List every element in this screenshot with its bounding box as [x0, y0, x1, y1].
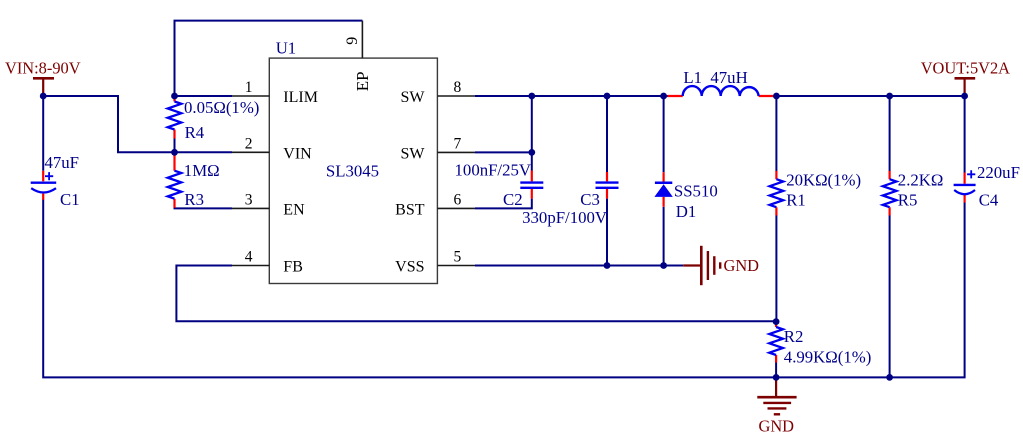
wire to pin 1	[175, 95, 233, 97]
svg-text:1: 1	[245, 79, 253, 96]
wire C3 branch top	[606, 96, 608, 172]
junction node D1/VSS	[660, 262, 667, 269]
capacitor C2	[455, 161, 544, 209]
svg-text:8: 8	[454, 79, 462, 96]
pin 8 SW	[437, 95, 475, 97]
svg-text:3: 3	[245, 191, 253, 208]
junction node R4/R3 VIN pin	[171, 149, 178, 156]
junction node VOUT/C4	[961, 93, 968, 100]
svg-text:47uH: 47uH	[710, 68, 747, 87]
pin 7 SW	[437, 151, 475, 153]
svg-text:2: 2	[245, 135, 253, 152]
junction node C3/VSS	[604, 262, 611, 269]
wire R3 to pin 3	[175, 204, 233, 208]
svg-text:20KΩ(1%): 20KΩ(1%)	[786, 170, 861, 189]
svg-text:330pF/100V: 330pF/100V	[522, 208, 607, 227]
svg-text:R5: R5	[898, 191, 918, 210]
svg-text:FB: FB	[283, 259, 303, 276]
wire FB pin 4 loop to R2 top	[176, 266, 776, 322]
wire SW rail right of L1	[773, 95, 965, 97]
wire C1 bottom / bottom rail / right riser to C4	[43, 200, 964, 378]
svg-text:9: 9	[344, 37, 361, 45]
svg-text:R4: R4	[185, 123, 205, 142]
wire to pin 2	[175, 151, 233, 153]
resistor R2	[769, 322, 871, 367]
pin 2 VIN	[232, 151, 269, 153]
svg-text:SW: SW	[401, 145, 426, 162]
svg-text:C2: C2	[503, 190, 523, 209]
svg-text:VOUT:5V2A: VOUT:5V2A	[921, 59, 1010, 78]
inductor L1	[668, 68, 774, 96]
junction node R5/rail	[886, 374, 893, 381]
wire R5 branch top	[889, 96, 891, 171]
svg-text:C4: C4	[979, 191, 999, 210]
pin 3 EN	[232, 207, 269, 209]
svg-text:VSS: VSS	[395, 259, 424, 276]
junction node L1/R1	[773, 93, 780, 100]
junction node SW/D1	[660, 93, 667, 100]
svg-text:1MΩ: 1MΩ	[184, 161, 220, 180]
ground symbol at VSS rail	[683, 246, 720, 285]
svg-text:GND: GND	[759, 417, 795, 436]
resistor R4	[168, 97, 260, 153]
junction node pin7/C2	[528, 149, 535, 156]
svg-text:100nF/25V: 100nF/25V	[455, 161, 531, 180]
pin 4 FB	[232, 265, 269, 267]
resistor R3	[168, 154, 220, 209]
wire C4 branch top	[964, 96, 966, 173]
wire R2 bottom to rail	[775, 363, 777, 378]
svg-text:4.99KΩ(1%): 4.99KΩ(1%)	[784, 348, 872, 367]
pin 6 BST	[437, 207, 475, 209]
svg-text:L1: L1	[683, 68, 702, 87]
resistor R5	[883, 170, 944, 215]
pin 1 ILIM	[232, 95, 269, 97]
svg-text:SL3045: SL3045	[326, 161, 379, 180]
wire R1 branch top	[775, 96, 777, 171]
svg-text:4: 4	[245, 249, 253, 266]
svg-text:R2: R2	[784, 327, 804, 346]
wire R5 bottom to rail	[889, 216, 891, 378]
wire VIN top to R4/VIN pin	[43, 96, 174, 152]
diode D1 SS510	[654, 172, 717, 221]
wire D1 bottom to VSS rail	[663, 207, 665, 266]
svg-text:SS510: SS510	[674, 181, 718, 200]
op IC U1 SL3045 box	[269, 58, 437, 283]
junction node R2/GND rail	[773, 374, 780, 381]
svg-text:EP: EP	[353, 71, 372, 91]
capacitor C4	[954, 163, 1020, 209]
svg-text:6: 6	[454, 191, 462, 208]
power port VIN bar	[33, 78, 54, 95]
svg-text:2.2KΩ: 2.2KΩ	[898, 170, 944, 189]
svg-text:R1: R1	[786, 191, 806, 210]
junction node VOUT/R5	[886, 93, 893, 100]
svg-text:D1: D1	[676, 202, 697, 221]
svg-text:SW: SW	[401, 89, 426, 106]
wire pin 7 to C2	[475, 151, 532, 153]
svg-text:BST: BST	[395, 201, 425, 218]
svg-text:EN: EN	[283, 201, 305, 218]
wire VSS rail pin 5 to GND	[475, 265, 683, 267]
junction node SW/C2	[528, 93, 535, 100]
junction node VIN	[40, 93, 47, 100]
wire D1 branch top	[663, 96, 665, 172]
svg-text:VIN: VIN	[283, 145, 312, 162]
pin 5 VSS	[437, 265, 475, 267]
svg-text:GND: GND	[724, 256, 760, 275]
svg-text:47uF: 47uF	[45, 153, 80, 172]
wire SW rail left of L1	[475, 95, 668, 97]
pin 9 EP	[361, 21, 363, 59]
svg-text:220uF: 220uF	[977, 163, 1020, 182]
svg-text:C3: C3	[580, 190, 600, 209]
wire R1 bottom to FB node	[775, 216, 777, 322]
wire VIN down to C1	[42, 96, 44, 171]
junction node SW/C3	[604, 93, 611, 100]
junction node R4 top	[171, 93, 178, 100]
svg-text:C1: C1	[60, 190, 80, 209]
svg-text:VIN:8-90V: VIN:8-90V	[5, 59, 81, 78]
svg-text:0.05Ω(1%): 0.05Ω(1%)	[184, 98, 259, 117]
capacitor C3	[522, 172, 618, 227]
wire C2 branch from SW rail	[531, 96, 533, 171]
ground symbol bottom GND	[757, 377, 796, 414]
svg-text:R3: R3	[184, 190, 204, 209]
resistor R1	[770, 170, 862, 215]
svg-text:ILIM: ILIM	[283, 89, 318, 106]
wire top loop R4 to pin 9	[175, 21, 363, 96]
wire C2 bottom to pin 6	[475, 199, 532, 209]
power port VOUT bar	[955, 78, 976, 95]
capacitor C1	[31, 153, 80, 209]
wire C3 bottom to VSS rail	[606, 199, 608, 266]
junction node FB/R2	[773, 318, 780, 325]
svg-text:5: 5	[454, 249, 462, 266]
svg-text:U1: U1	[276, 39, 297, 58]
svg-text:7: 7	[454, 135, 462, 152]
